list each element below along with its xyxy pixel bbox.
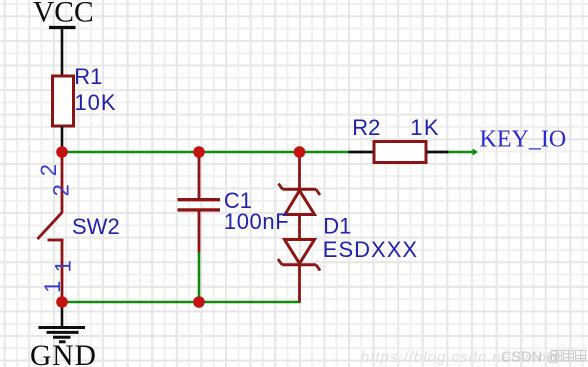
svg-text:2: 2 [48, 184, 73, 196]
svg-text:R2: R2 [352, 115, 380, 140]
svg-text:1K: 1K [410, 115, 440, 140]
svg-text:GND: GND [30, 340, 97, 367]
svg-text:D1: D1 [323, 214, 351, 239]
svg-text:R1: R1 [74, 64, 102, 89]
svg-text:2: 2 [36, 164, 61, 176]
svg-text:ESDXXX: ESDXXX [323, 237, 418, 262]
svg-text:KEY_IO: KEY_IO [480, 127, 567, 153]
svg-text:SW2: SW2 [72, 214, 120, 239]
svg-text:1: 1 [40, 281, 65, 293]
svg-text:10K: 10K [74, 90, 116, 115]
svg-text:1: 1 [50, 260, 75, 272]
svg-text:VCC: VCC [33, 0, 94, 29]
svg-text:100nF: 100nF [224, 209, 289, 234]
